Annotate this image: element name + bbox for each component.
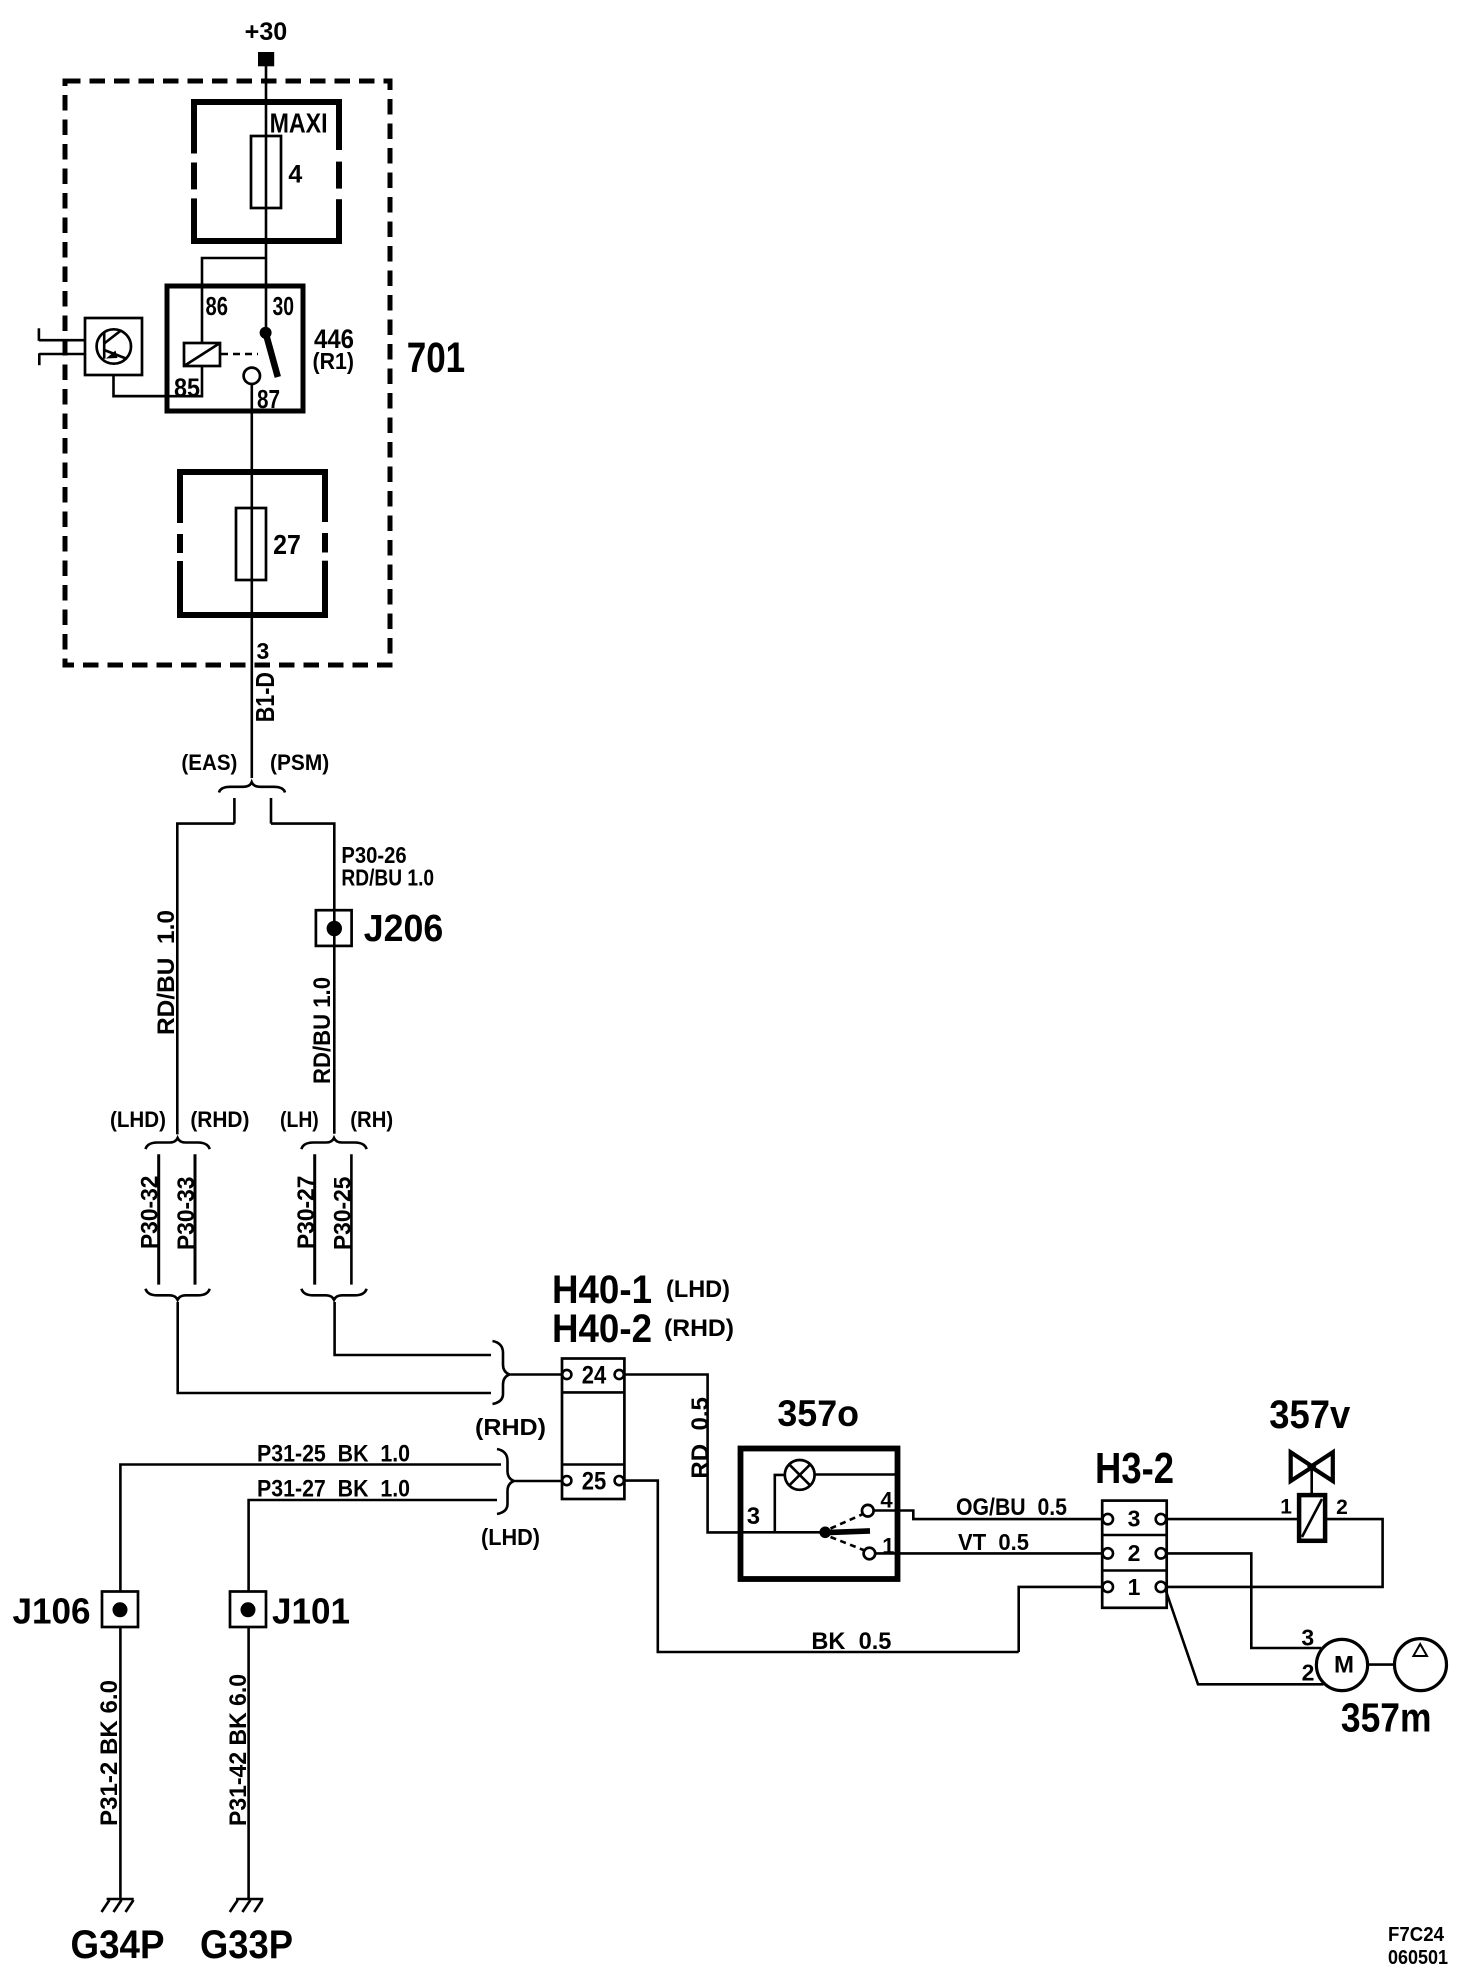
- wire pin 1 to H3-2 pin 2: [875, 1552, 1102, 1555]
- svg-text:701: 701: [407, 334, 466, 382]
- svg-text:(LH): (LH): [280, 1107, 319, 1132]
- svg-text:(RHD): (RHD): [190, 1107, 249, 1132]
- junction J106 dot: [113, 1602, 128, 1617]
- svg-text:3: 3: [747, 1503, 760, 1530]
- lamp symbol: [785, 1460, 815, 1490]
- svg-text:87: 87: [257, 384, 280, 414]
- wire stub EAS branch: [233, 798, 236, 824]
- component box 701 dashed outline: [65, 81, 390, 665]
- svg-text:RD/BU 1.0: RD/BU 1.0: [153, 910, 180, 1035]
- switch pivot dot: [819, 1527, 831, 1539]
- svg-text:RD/BU 1.0: RD/BU 1.0: [341, 865, 434, 891]
- brace bottom left connector pair: [146, 1289, 210, 1300]
- ground symbol G33P: [236, 1898, 263, 1901]
- svg-text:J106: J106: [13, 1591, 91, 1632]
- wire right pair down and right to brace RHD: [335, 1302, 491, 1355]
- brace splice EAS/PSM: [219, 782, 285, 792]
- svg-text:1: 1: [882, 1534, 894, 1559]
- svg-text:VT 0.5: VT 0.5: [958, 1529, 1029, 1555]
- svg-text:G33P: G33P: [200, 1923, 293, 1967]
- wire tee to relay pin 86: [202, 258, 266, 286]
- wire H3-2 pin 1 diagonal to motor pin 2: [1166, 1591, 1324, 1685]
- svg-text:357v: 357v: [1269, 1393, 1351, 1437]
- svg-text:24: 24: [582, 1362, 607, 1390]
- svg-text:357o: 357o: [777, 1393, 859, 1434]
- svg-text:(EAS): (EAS): [181, 750, 237, 775]
- control unit box with transistor: [85, 318, 142, 375]
- junction J101 dot: [241, 1602, 256, 1617]
- wire PSM branch right: [271, 824, 334, 1134]
- fuse 27 element: [236, 508, 266, 580]
- svg-text:4: 4: [288, 161, 302, 189]
- node +30 feed terminal square: [258, 52, 274, 66]
- control input wire lower with tick: [39, 353, 85, 356]
- wire stub PSM branch: [270, 798, 273, 824]
- motor 357m circle: [1316, 1639, 1367, 1690]
- svg-text:25: 25: [582, 1468, 607, 1496]
- svg-text:2: 2: [1302, 1660, 1315, 1686]
- svg-text:357m: 357m: [1341, 1695, 1432, 1741]
- H3-2 pin circles right: [1156, 1514, 1166, 1524]
- ground symbol G34P: [107, 1898, 134, 1901]
- svg-text:F7C24: F7C24: [1388, 1924, 1445, 1946]
- svg-text:4: 4: [880, 1488, 893, 1513]
- svg-text:3: 3: [1301, 1625, 1314, 1651]
- svg-text:BK 0.5: BK 0.5: [811, 1628, 891, 1655]
- svg-text:(LHD): (LHD): [666, 1276, 730, 1303]
- svg-text:P30-33: P30-33: [173, 1177, 200, 1250]
- junction J206 dot: [327, 921, 342, 936]
- wire pin 3 rail: [741, 1531, 820, 1534]
- switch lever: [827, 1531, 870, 1533]
- wire pin 25 down to BK run: [624, 1481, 1019, 1652]
- svg-text:3: 3: [1128, 1506, 1141, 1532]
- contact pin 1 circle: [864, 1548, 876, 1560]
- svg-text:J206: J206: [364, 908, 444, 950]
- svg-text:(LHD): (LHD): [481, 1524, 540, 1550]
- pump circle: [1395, 1639, 1447, 1691]
- wire lamp right leg to box edge: [815, 1473, 895, 1476]
- relay contact pivot dot pin 30: [260, 327, 272, 339]
- wire H3-2 pin 3 to valve pin 1: [1166, 1518, 1299, 1521]
- svg-text:RD/BU 1.0: RD/BU 1.0: [309, 977, 336, 1084]
- relay coil to pin 85 wire: [114, 366, 203, 396]
- brace bottom right connector pair: [301, 1289, 366, 1300]
- wire BK up to H3-2 pin 1: [1019, 1587, 1103, 1652]
- svg-text:H40-2: H40-2: [552, 1307, 652, 1351]
- transistor symbol: [97, 329, 131, 363]
- svg-text:P31-2 BK 6.0: P31-2 BK 6.0: [96, 1680, 123, 1826]
- wire P31-25 from J106 to brace LHD: [120, 1465, 501, 1592]
- wire left pair down and right to brace RHD: [178, 1302, 491, 1393]
- brace RHD into pin 24: [493, 1341, 510, 1404]
- svg-text:G34P: G34P: [71, 1923, 165, 1967]
- H3-2 pin circles left: [1103, 1514, 1113, 1524]
- dashed throw to pin 4: [831, 1515, 863, 1529]
- connector H40 box: [562, 1359, 624, 1500]
- svg-text:H40-1: H40-1: [552, 1268, 652, 1312]
- svg-text:30: 30: [273, 291, 295, 321]
- wire brace LHD to pin 25: [515, 1480, 562, 1483]
- wire J101 to ground G33P: [247, 1627, 250, 1899]
- wire EAS branch left: [177, 824, 234, 1135]
- wire pin 4 to H3-2 pin 3: [874, 1511, 1103, 1520]
- svg-text:(LHD): (LHD): [110, 1107, 166, 1132]
- svg-text:(RH): (RH): [350, 1107, 393, 1132]
- brace top left connector pair: [146, 1138, 210, 1149]
- fuse housing MAXI box: [194, 102, 339, 241]
- relay coil wire from pin 86: [201, 286, 204, 343]
- svg-text:+30: +30: [245, 18, 288, 46]
- wire brace RHD to pin 24: [511, 1373, 563, 1376]
- relay contact lever: [267, 336, 278, 377]
- junction J106 box: [102, 1592, 138, 1628]
- svg-text:27: 27: [273, 529, 301, 560]
- svg-text:060501: 060501: [1388, 1947, 1448, 1969]
- contact pin 4 circle: [862, 1505, 874, 1517]
- svg-text:2: 2: [1336, 1496, 1348, 1519]
- connector H3-2 box: [1102, 1501, 1167, 1608]
- control input wire upper with tick: [39, 339, 85, 342]
- wire P31-27 from J101 to brace LHD: [249, 1500, 497, 1592]
- svg-text:3: 3: [257, 638, 270, 664]
- connector pin line P30-32: [157, 1154, 160, 1284]
- svg-text:MAXI: MAXI: [270, 108, 328, 139]
- wire J106 to ground G34P: [119, 1627, 122, 1899]
- wire lamp left leg: [775, 1475, 785, 1533]
- svg-text:M: M: [1334, 1652, 1354, 1679]
- pin 24 circles: [562, 1370, 571, 1379]
- relay coil: [184, 343, 220, 366]
- dashed throw to pin 1: [831, 1537, 864, 1550]
- brace LHD into pin 25: [497, 1449, 514, 1514]
- wire control box to relay pin 85: [114, 375, 169, 396]
- svg-text:86: 86: [206, 291, 229, 321]
- pin 25 circles: [562, 1476, 571, 1485]
- relay actuation dashed link: [221, 353, 258, 356]
- relay 446 box: [167, 286, 303, 411]
- solenoid coil box: [1299, 1495, 1325, 1541]
- svg-text:B1-D: B1-D: [250, 672, 280, 722]
- connector pin line P30-27: [313, 1154, 316, 1284]
- wire H3-2 pin 2 down to motor pin 3: [1166, 1553, 1321, 1648]
- fuse 4 element: [251, 136, 281, 208]
- svg-text:1: 1: [1280, 1495, 1292, 1518]
- switch unit 357o box: [741, 1449, 898, 1580]
- svg-text:P30-27: P30-27: [293, 1176, 320, 1249]
- svg-text:H3-2: H3-2: [1095, 1444, 1174, 1493]
- wire pin 24 to 357o pin 3: [624, 1375, 739, 1533]
- wire valve pin 2 loop back to H3-2 pin 1: [1166, 1519, 1383, 1587]
- svg-text:(R1): (R1): [313, 348, 355, 374]
- svg-text:(PSM): (PSM): [270, 750, 329, 775]
- pump triangle: [1413, 1644, 1427, 1656]
- svg-text:85: 85: [174, 373, 200, 403]
- wire main feed from +30 down to relay pin 30: [265, 66, 268, 333]
- connector pin line P30-33: [194, 1154, 197, 1284]
- svg-text:(RHD): (RHD): [475, 1414, 546, 1440]
- svg-text:OG/BU 0.5: OG/BU 0.5: [956, 1494, 1067, 1521]
- svg-text:RD 0.5: RD 0.5: [687, 1397, 714, 1479]
- svg-text:1: 1: [1128, 1574, 1141, 1600]
- junction J101 box: [230, 1592, 266, 1628]
- svg-text:P30-32: P30-32: [137, 1176, 164, 1249]
- relay terminal 87 circle: [244, 368, 260, 384]
- link motor to pump: [1368, 1663, 1395, 1666]
- junction J206 box: [316, 910, 352, 946]
- brace top right connector pair: [301, 1138, 366, 1149]
- svg-text:J101: J101: [272, 1591, 350, 1632]
- connector pin line P30-25: [350, 1154, 353, 1284]
- svg-text:P31-27 BK 1.0: P31-27 BK 1.0: [257, 1476, 410, 1503]
- svg-text:P30-25: P30-25: [329, 1177, 356, 1250]
- svg-text:(RHD): (RHD): [664, 1315, 734, 1342]
- svg-text:P31-42 BK 6.0: P31-42 BK 6.0: [225, 1674, 252, 1826]
- fuse housing 27 box: [180, 472, 325, 615]
- valve symbol bowtie: [1291, 1452, 1333, 1481]
- svg-text:2: 2: [1128, 1540, 1141, 1566]
- wire relay pin 87 down through fuse 27: [251, 384, 254, 778]
- valve stem: [1310, 1467, 1313, 1495]
